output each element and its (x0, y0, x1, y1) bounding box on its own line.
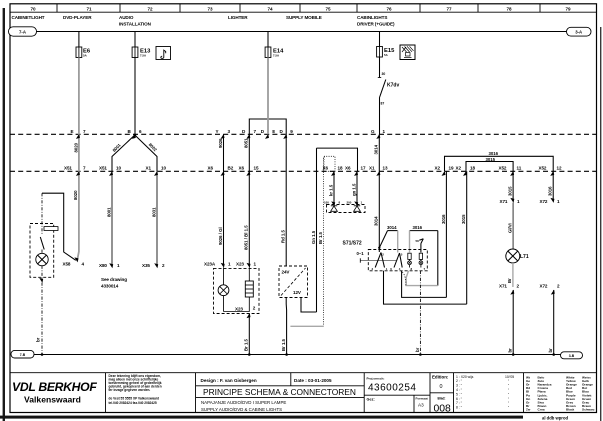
svg-text:7-A: 7-A (19, 30, 26, 35)
svg-text:10: 10 (116, 165, 121, 170)
supply bus wire (top) (37, 31, 568, 33)
svg-text:3016: 3016 (413, 225, 423, 230)
switch blade (40, 237, 44, 250)
connector pin X51-10 (99, 165, 121, 176)
svg-text:“: “ (508, 397, 509, 401)
svg-text:X23: X23 (235, 307, 243, 312)
svg-text:VDL BERKHOF: VDL BERKHOF (12, 380, 97, 394)
svg-text:X71: X71 (500, 199, 508, 204)
wire pin4 to 3016 (402, 271, 447, 298)
audio symbol box (music note) (156, 47, 171, 60)
svg-text:X52: X52 (539, 165, 547, 170)
switch positions 0-1 (357, 251, 397, 263)
svg-text:15: 15 (254, 165, 259, 170)
off-page reference 7-A (9, 27, 37, 36)
svg-text:78: 78 (507, 7, 512, 12)
gray drop to lamp H71 (409, 231, 411, 253)
svg-text:13: 13 (383, 165, 388, 170)
svg-text:CABINLIGHTS: CABINLIGHTS (357, 15, 387, 20)
svg-text:K7dv: K7dv (387, 83, 399, 89)
svg-text:“: “ (508, 384, 509, 388)
mechanical dashed curve (402, 272, 406, 286)
wire Br below lamp (512, 263, 514, 287)
wire 3014 horizontal to switch (388, 230, 398, 232)
off-page reference 3-A (567, 27, 592, 36)
wire E14 gray to D8 (267, 58, 269, 135)
wire Gn 1.5 converter 12V out (301, 298, 317, 313)
svg-text:br: br (36, 337, 41, 342)
connector pin B6 (128, 129, 143, 139)
converter connector bracket D (249, 119, 286, 134)
wire 3015 top run (466, 162, 513, 200)
svg-text:9026: 9026 (218, 138, 223, 148)
svg-text:Blad:: Blad: (438, 397, 446, 401)
svg-text:7.5A: 7.5A (273, 54, 280, 58)
wire bus to fuse E13 (134, 32, 136, 48)
svg-text:gn 1.5: gn 1.5 (351, 183, 356, 196)
connector X72-2 (540, 284, 561, 295)
svg-text:“: “ (508, 379, 509, 383)
wire kr 1.5 (333, 171, 335, 204)
svg-text:8051 / Bl 1.5: 8051 / Bl 1.5 (244, 225, 249, 250)
svg-text:3016: 3016 (548, 186, 553, 196)
svg-text:3-A: 3-A (575, 30, 582, 35)
svg-text:A3: A3 (418, 403, 424, 408)
connector pin D9 (280, 129, 294, 139)
lighter internal return wire (224, 297, 250, 312)
svg-text:LIGHTER: LIGHTER (228, 15, 248, 20)
lighter heating element (245, 268, 253, 298)
svg-text:24V: 24V (282, 270, 291, 275)
title block frame (10, 373, 597, 413)
wire 8001 to X80 (111, 171, 113, 266)
wire 3014 branch diagonal (379, 231, 387, 248)
svg-text:79: 79 (566, 7, 571, 12)
svg-text:7.5A: 7.5A (140, 54, 147, 58)
connector arrow below box (39, 278, 43, 283)
connector pin X1-13 (369, 165, 388, 176)
svg-text:kr 1.5: kr 1.5 (328, 184, 333, 196)
svg-text:AUDIO: AUDIO (119, 15, 134, 20)
svg-text:X72: X72 (540, 199, 548, 204)
grid numbers 70-79 (31, 7, 571, 12)
wire 8001 branch (112, 135, 135, 171)
svg-text:X72: X72 (540, 284, 548, 289)
svg-text:Br 1.5: Br 1.5 (281, 338, 286, 351)
wire K7dv to connector G1 (379, 98, 381, 135)
fuse E13 7.5A (132, 47, 151, 58)
svg-text:100: 100 (324, 201, 329, 205)
connector pin E7 (71, 129, 87, 139)
connector pin X52-11 (499, 165, 522, 176)
harness connector dashed line (lower) (10, 170, 597, 172)
svg-text:5 : “: 5 : “ (456, 392, 462, 396)
svg-text:Gez:: Gez: (367, 398, 375, 402)
wire 8051 D7 down (248, 134, 250, 171)
svg-text:6 : “: 6 : “ (456, 397, 462, 401)
svg-text:8020: 8020 (73, 142, 78, 152)
lamp E (cabinet) (36, 253, 48, 265)
grid ticks (57, 4, 540, 12)
bracket wire gn (converter 12V to X6-17) (317, 148, 358, 171)
connector X23-1 (236, 261, 257, 268)
svg-text:X6: X6 (345, 165, 351, 170)
svg-text:4 : “: 4 : “ (456, 388, 462, 392)
lighter unit box (214, 268, 260, 313)
svg-text:Br: Br (507, 278, 512, 283)
svg-text:30: 30 (382, 72, 386, 76)
scan artifact left edge (3, 8, 5, 421)
svg-text:Gn 1.5: Gn 1.5 (311, 230, 316, 244)
pin numbers bottom row (372, 267, 426, 271)
svg-text:ter inzage gegeven worden.: ter inzage gegeven worden. (109, 388, 151, 392)
wire 3014 below X1-13 (378, 171, 380, 252)
svg-text:Proj.omsch:: Proj.omsch: (367, 376, 385, 380)
svg-text:“: “ (508, 406, 509, 410)
svg-text:X80: X80 (99, 263, 107, 268)
svg-text:Black: Black (566, 408, 575, 412)
connector X23-2 (235, 306, 256, 319)
svg-text:3015: 3015 (486, 157, 496, 162)
svg-text:X1: X1 (146, 165, 152, 170)
svg-text:Valkenswaard: Valkenswaard (24, 395, 81, 405)
wire X72-2 to bus (553, 290, 555, 355)
svg-text:3016: 3016 (489, 151, 499, 156)
svg-text:G: G (371, 129, 375, 134)
connector pin X51-7 (64, 165, 86, 176)
svg-text:Br 1.5: Br 1.5 (244, 338, 249, 351)
connector pin X6-18 (323, 165, 343, 176)
svg-text:X1: X1 (369, 165, 375, 170)
scan artifact bottom edge (0, 416, 523, 419)
svg-text:8051: 8051 (244, 138, 249, 148)
wire Br 1.5 converter to bus (285, 298, 287, 355)
svg-text:3014: 3014 (374, 216, 379, 226)
svg-text:2 : “: 2 : “ (456, 379, 462, 383)
legal / address text (109, 374, 162, 405)
svg-text:CABINETLIGHT: CABINETLIGHT (12, 15, 45, 20)
svg-text:8 : “: 8 : “ (456, 406, 462, 410)
connector X80-1 (99, 263, 120, 268)
connector pin D7 (242, 129, 257, 139)
svg-text:X58: X58 (63, 261, 71, 266)
wire E13 to B6 (134, 58, 136, 135)
grid band bottom line (10, 11, 597, 13)
gray return wire horizontal (290, 325, 323, 327)
svg-text:17: 17 (361, 165, 366, 170)
svg-text:12V: 12V (293, 290, 302, 295)
svg-text:3-B: 3-B (569, 354, 575, 358)
fuse E6 5A (76, 47, 91, 58)
svg-text:18: 18 (470, 165, 475, 170)
svg-text:Date : 03-01-2005: Date : 03-01-2005 (294, 378, 332, 383)
wire 9026 (223, 134, 225, 171)
svg-text:de Vest 55 5555 XP Valkenswaar: de Vest 55 5555 XP Valkenswaard (109, 397, 160, 401)
svg-text:br: br (415, 347, 420, 352)
connector pin X6-B2 (208, 165, 234, 176)
wire bus to fuse E6 (78, 32, 80, 48)
fuse E14 7.5A (265, 47, 284, 58)
svg-text:0–1: 0–1 (357, 251, 365, 256)
wire Gl/Vi to lamp L71 (512, 203, 514, 250)
svg-text:3 : “: 3 : “ (456, 384, 462, 388)
svg-text:18: 18 (338, 165, 343, 170)
svg-text:8020: 8020 (73, 190, 78, 200)
wire 8002 branch (135, 135, 157, 171)
junction on bus (248, 353, 251, 356)
scan artifact right edge (600, 27, 601, 421)
mating connector housing X6-18 (dotted) (324, 156, 335, 171)
svg-text:S71/S72: S71/S72 (343, 241, 362, 247)
svg-text:X2: X2 (456, 165, 462, 170)
connector X23A-1 (204, 261, 231, 268)
junction on bus (285, 353, 288, 356)
svg-text:73: 73 (208, 7, 213, 12)
pilot lamp H71 (resistor + lamp) (408, 253, 412, 267)
svg-text:Gl/Vi: Gl/Vi (508, 223, 513, 233)
svg-text:7-B: 7-B (20, 353, 26, 357)
wire switch to lamp (41, 250, 43, 254)
svg-text:X23A: X23A (204, 261, 216, 266)
svg-text:9026 / Gl: 9026 / Gl (218, 227, 223, 245)
svg-text:X2: X2 (435, 165, 441, 170)
wire bus to fuse E14 (267, 32, 269, 48)
wire 8031 to X35 (156, 171, 158, 266)
gray drop to switch pin 5 (397, 231, 399, 253)
svg-text:3014: 3014 (387, 225, 397, 230)
wire 3016 riser (445, 171, 447, 297)
svg-text:70: 70 (31, 7, 36, 12)
wire 3016 horizontal (410, 230, 438, 232)
svg-text:58: 58 (416, 239, 420, 243)
svg-text:Y: Y (216, 129, 219, 134)
svg-text:br: br (548, 348, 553, 353)
svg-text:X51: X51 (64, 165, 72, 170)
svg-text:76: 76 (387, 7, 392, 12)
lamp L71 (506, 249, 529, 263)
switch unit S71/S72 box (368, 250, 427, 271)
connector pin X52-12 (539, 165, 562, 176)
wire 8020 (gray, fuse E6 to X58) (77, 58, 79, 261)
wire 3015 riser (466, 171, 468, 304)
svg-text:Rd 1.5: Rd 1.5 (281, 229, 286, 243)
svg-text:X52: X52 (499, 165, 507, 170)
wire lamp to box bottom (41, 266, 43, 281)
svg-text:SUPPLY AUDIO/DVD & CABINE LIGH: SUPPLY AUDIO/DVD & CABINE LIGHTS (201, 407, 282, 412)
cabinet light switch feed (dash-dot) (41, 193, 43, 234)
svg-text:X6: X6 (323, 165, 329, 170)
junction on bus (419, 353, 422, 356)
wire 3016 top run (445, 156, 554, 199)
wire fuse E15 to relay contact K7dv (379, 57, 381, 78)
svg-text:4330014: 4330014 (101, 284, 119, 289)
diode box (327, 205, 366, 213)
wire gn 1.5 (356, 171, 358, 204)
svg-text:87: 87 (381, 102, 385, 106)
svg-text:77: 77 (447, 7, 452, 12)
svg-text:X6: X6 (208, 165, 214, 170)
connector pin Y3 (216, 129, 231, 139)
svg-text:3016: 3016 (441, 214, 446, 224)
svg-text:19: 19 (449, 165, 454, 170)
svg-text:12: 12 (557, 165, 562, 170)
svg-text:X6: X6 (239, 165, 245, 170)
svg-text:INSTALLATION: INSTALLATION (119, 22, 152, 27)
wire 8051 / Bl 1.5 (248, 171, 250, 265)
svg-text:71: 71 (87, 7, 92, 12)
revision table (456, 375, 514, 410)
connector pin X2-19 (435, 165, 454, 176)
svg-text:See drawing: See drawing (101, 277, 127, 282)
svg-text:X23: X23 (236, 261, 244, 266)
svg-text:PRINCIPE SCHEMA & CONNECTOREN: PRINCIPE SCHEMA & CONNECTOREN (203, 387, 356, 397)
connector pin X6-15 (239, 165, 259, 176)
svg-text:74: 74 (268, 7, 273, 12)
connector pin X2-18 (456, 165, 476, 176)
svg-text:008: 008 (434, 404, 452, 415)
svg-text:3014: 3014 (374, 144, 379, 154)
cabinet light feed wire (black) (42, 193, 76, 260)
svg-text:Formaat: Formaat (416, 397, 428, 401)
cabinet light unit box (30, 224, 54, 278)
wire 3014 (G1 down) (378, 134, 380, 143)
svg-text:Schwarz: Schwarz (582, 408, 595, 412)
switch S71 contacts (375, 253, 384, 268)
cabin light symbol box (400, 45, 415, 60)
connector X71-2 (499, 284, 520, 295)
junction on bus (512, 353, 515, 356)
wire br lamps to bus (dash-dot) (419, 271, 421, 355)
svg-text:NAPAJANJE AUDIO/DVD I SUPER L: NAPAJANJE AUDIO/DVD I SUPER LAMPE (201, 400, 286, 405)
connector X71-1 (500, 198, 521, 204)
connector pin X1-10 (146, 165, 167, 176)
svg-text:Edition:: Edition: (432, 375, 449, 380)
svg-text:X71: X71 (499, 284, 507, 289)
push switch plunger (44, 227, 58, 231)
wire pin1 to 3015 (384, 271, 467, 304)
wire Br 1.5 lighter to bus (248, 314, 250, 355)
connector X72-1 (540, 198, 561, 204)
svg-text:3015: 3015 (461, 214, 466, 224)
off-page reference 7-B (11, 350, 34, 358)
svg-text:br: br (508, 348, 513, 353)
junction at B6 (133, 134, 136, 137)
svg-text:8001: 8001 (107, 207, 112, 217)
gray return wire dotted (323, 158, 325, 326)
svg-text:DRIVER (+GUIDE): DRIVER (+GUIDE) (357, 22, 395, 27)
svg-text:B2: B2 (228, 165, 234, 170)
svg-text:L71: L71 (520, 254, 529, 260)
off-page reference 3-B (561, 352, 583, 359)
junction on bus (552, 353, 555, 356)
svg-text:Crna: Crna (538, 408, 545, 412)
svg-text:E: E (71, 129, 74, 134)
svg-text:3015: 3015 (508, 186, 513, 196)
switch S72 contacts (394, 253, 403, 268)
diode V100 (331, 206, 338, 212)
module boundary dashed line (upper) (10, 133, 597, 135)
svg-text:0: 0 (440, 384, 443, 390)
svg-text:11: 11 (517, 165, 522, 170)
svg-text:al ddb wprod: al ddb wprod (542, 415, 568, 420)
wire br to ground bus (41, 283, 43, 355)
connector pin X6-17 (345, 165, 366, 176)
svg-text:Br 1.5: Br 1.5 (318, 231, 323, 244)
lighter illumination lamp (218, 268, 229, 312)
wire X71-2 to bus (512, 290, 514, 355)
svg-text:72: 72 (148, 7, 153, 12)
relay contact K7dv (378, 78, 400, 98)
connector pin D8 (261, 129, 276, 139)
gray lamp return loop (406, 271, 438, 286)
svg-text:“: “ (508, 392, 509, 396)
svg-text:“: “ (508, 401, 509, 405)
connector X35-2 (142, 263, 165, 268)
wire 3016 vertical down (437, 231, 439, 286)
wire 9026/Gl to lighter lamp (223, 171, 225, 265)
converter 24V/12V box (279, 266, 308, 298)
ground return bus (bottom) (34, 354, 561, 356)
terminal 58 feed lamp H72 (416, 239, 424, 253)
wire Rd 1.5 (D9 to converter) (285, 134, 287, 266)
svg-text:tel.040 2082424 fax.040 208242: tel.040 2082424 fax.040 2082425 (109, 401, 157, 405)
svg-text:SUPPLY MOBILE: SUPPLY MOBILE (286, 15, 322, 20)
svg-text:Zw: Zw (526, 408, 531, 412)
svg-text:X35: X35 (142, 263, 150, 268)
fuse E15 5A (377, 47, 395, 58)
wire colour legend (526, 375, 595, 411)
connector pin G1 (371, 129, 386, 139)
connector X58-4 (63, 257, 85, 266)
svg-text:10/'05: 10/'05 (505, 375, 514, 379)
wire bus to fuse E15 (379, 32, 381, 47)
junction on bus (41, 353, 44, 356)
diode V200 (354, 206, 361, 212)
svg-text:10: 10 (161, 165, 166, 170)
svg-text:43600254: 43600254 (368, 383, 417, 394)
pilot lamp H72 (resistor + lamp) (419, 253, 423, 267)
svg-text:200: 200 (347, 201, 352, 205)
svg-text:DVD-PLAYER: DVD-PLAYER (63, 15, 92, 20)
svg-text:X51: X51 (99, 165, 107, 170)
svg-text:“: “ (508, 388, 509, 392)
svg-text:Design : F. van Gisbergen: Design : F. van Gisbergen (201, 378, 257, 383)
svg-text:1 : X20 wijz.: 1 : X20 wijz. (456, 375, 474, 379)
svg-text:7 : “: 7 : “ (456, 401, 462, 405)
svg-text:8031: 8031 (152, 207, 157, 217)
svg-text:75: 75 (326, 7, 331, 12)
